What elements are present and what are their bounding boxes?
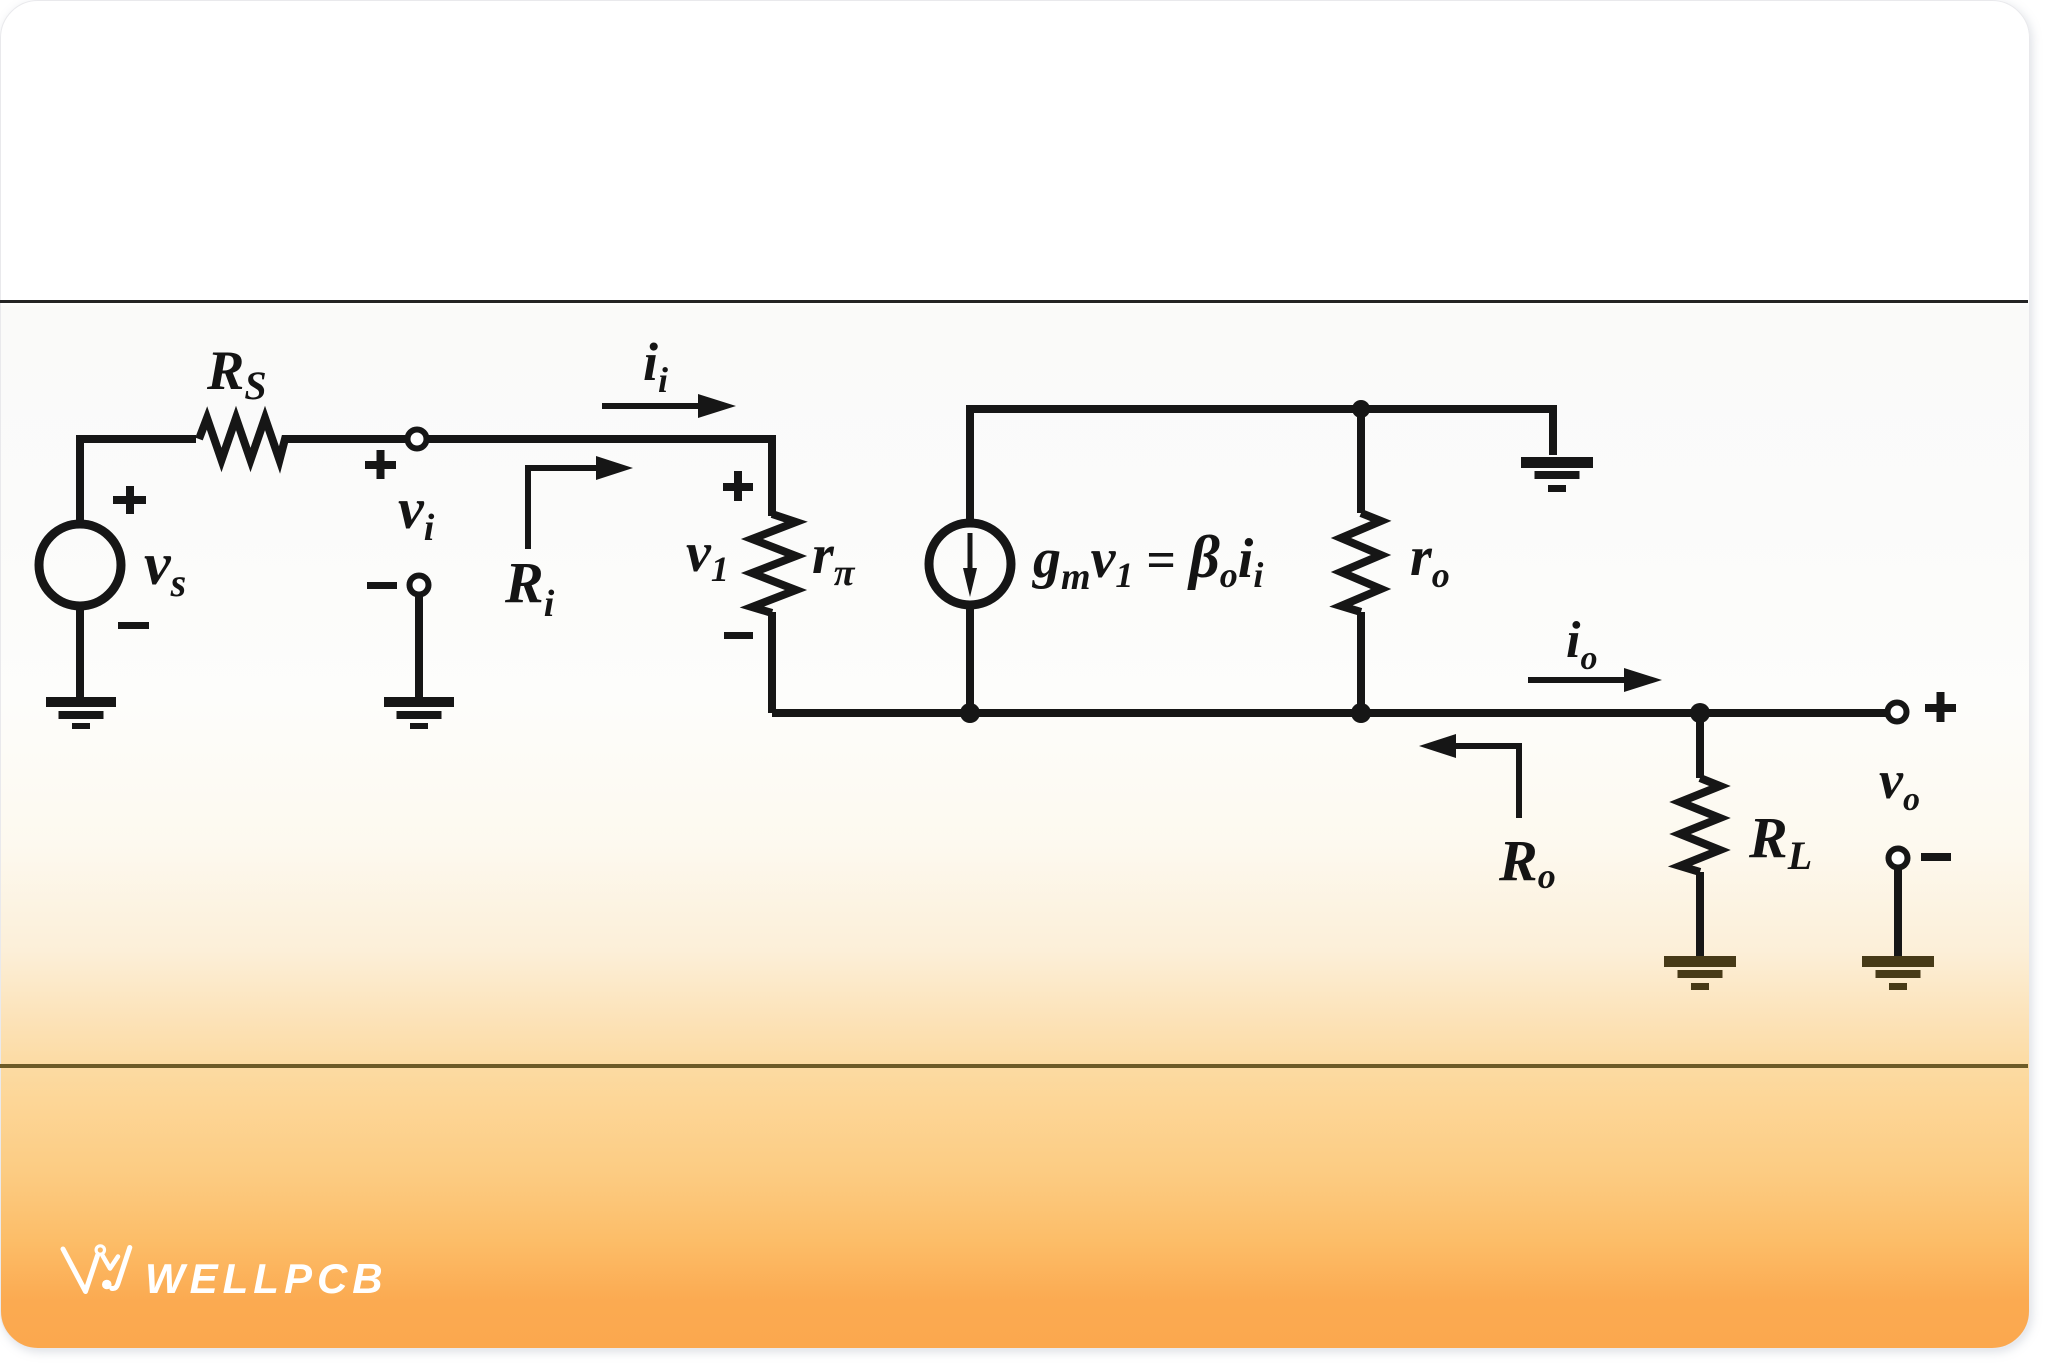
svg-text:ii: ii <box>643 332 668 400</box>
svg-text:vs: vs <box>144 531 186 605</box>
svg-text:io: io <box>1566 612 1597 677</box>
svg-text:vi: vi <box>398 476 435 549</box>
svg-text:WELLPCB: WELLPCB <box>145 1255 388 1302</box>
svg-text:ro: ro <box>1410 526 1450 595</box>
svg-text:RS: RS <box>206 340 267 408</box>
svg-text:v1: v1 <box>686 522 729 589</box>
svg-text:gmv1 = βoii: gmv1 = βoii <box>1031 524 1263 598</box>
svg-text:Ro: Ro <box>1498 828 1556 896</box>
svg-text:rπ: rπ <box>812 524 856 594</box>
svg-text:RL: RL <box>1748 805 1812 878</box>
svg-text:vo: vo <box>1879 750 1920 818</box>
svg-text:Ri: Ri <box>504 550 555 625</box>
